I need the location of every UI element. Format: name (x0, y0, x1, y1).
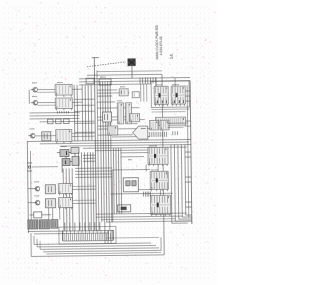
connector CN1 (28, 220, 38, 229)
wire K1 out (72, 88, 82, 90)
transistor Q3 (28, 133, 35, 138)
wire U7 row (110, 192, 172, 195)
wire nest h4b (46, 253, 161, 254)
wire to IC4 a (121, 152, 148, 154)
marks right of IC3 (173, 131, 178, 135)
wire resistor row (40, 120, 95, 123)
hatch cluster IC5-IC6 (143, 191, 150, 196)
wire nest h2 (37, 245, 156, 246)
wire comb risers (65, 222, 110, 231)
wire IC3 right b (168, 126, 184, 128)
wire IC4-IC5 (145, 165, 147, 172)
label K1 (57, 82, 63, 84)
resistor array RA1 (140, 77, 156, 83)
capacitor C2 (45, 185, 55, 194)
wire K5 out a (73, 199, 96, 201)
wire mid bus 3 (60, 144, 191, 146)
label Q4 (34, 181, 39, 183)
ic IC3b (160, 120, 169, 130)
wire right nest bottoms (172, 215, 192, 223)
resistor R6 row (30, 212, 51, 218)
hatch cluster below IC3 (150, 132, 167, 137)
label Q3 (30, 128, 35, 130)
wire box bottom (106, 221, 192, 222)
wire nest v3 (36, 239, 38, 247)
wire IC4 down (157, 164, 159, 171)
wire comb to nest verticals (105, 230, 111, 243)
wire comb right edge (112, 230, 114, 240)
wire Q1-Q2 left (28, 90, 30, 104)
wire below CN row 2 (34, 232, 109, 235)
label U8 (120, 86, 125, 88)
label Q1 (32, 82, 37, 84)
wire below CN row (28, 230, 113, 231)
wire right edge (190, 81, 192, 224)
wire below M1 b (151, 111, 185, 113)
wire nest v2 (33, 236, 35, 244)
relay K2 (55, 98, 72, 111)
wire K5 drop (59, 208, 61, 220)
wire Q1 to K1 (37, 88, 55, 90)
wire K3 out b (72, 135, 95, 137)
relay K1 (55, 84, 72, 97)
connector CN4 outline (59, 226, 116, 244)
wire IC3 right a (168, 122, 188, 124)
wire outer bottom (31, 255, 164, 257)
label U5 (107, 123, 112, 125)
wire below M1 (151, 108, 189, 110)
connector J1 (86, 78, 94, 84)
ic U2 (102, 112, 111, 122)
connector CN4 comb (63, 230, 113, 241)
svg-text:14: 14 (169, 54, 174, 60)
ic IC5 (150, 171, 168, 191)
resistor row R1-R3 (48, 119, 70, 124)
connector CN3 (51, 220, 58, 229)
wire K4 out a (72, 185, 95, 187)
wire F1 down (131, 66, 133, 78)
crystal Y1 arrow symbol (133, 126, 148, 139)
IC1 pin dots (157, 100, 166, 103)
wire K5 out b (73, 202, 96, 204)
wire C3 drop b (52, 208, 54, 220)
title text block (rotated) (155, 25, 163, 60)
wire K2 out (72, 101, 82, 103)
wire nest v4 (160, 237, 162, 250)
transistor Q1 (31, 87, 38, 92)
wire nest v1 (30, 233, 32, 256)
ic U8 (119, 89, 128, 96)
wire left horizontals (29, 112, 79, 119)
wire center mesh (74, 90, 150, 138)
wire osc outputs (75, 168, 112, 177)
relay K5 (59, 197, 73, 209)
wire box top (112, 168, 150, 170)
wire to IC4 b (121, 156, 144, 158)
wire mid bus 4 (83, 147, 187, 148)
Y1 inner mark (141, 128, 146, 130)
label IC1 (155, 84, 162, 86)
ic IC3a (150, 120, 159, 130)
oscillator X1 cluster (57, 147, 79, 172)
ic U4 (125, 103, 131, 124)
wire spine left (94, 58, 96, 231)
wire outer loop right (162, 74, 164, 229)
wire top bus 2 (79, 78, 190, 79)
wire U7 to IC5 (138, 188, 150, 190)
wire IC5-IC6 (159, 189, 161, 195)
wire bottom bus 3 (101, 218, 176, 221)
wire nest h4 (43, 250, 161, 251)
capacitor C3 (46, 199, 56, 208)
ic U6 (129, 114, 139, 122)
wire top bus 3 (79, 81, 190, 82)
wire Q1 to K1 b (37, 91, 55, 93)
wire top tick (92, 57, 99, 59)
ticks below K2 (57, 111, 68, 114)
wire Q3 to K3 (36, 135, 56, 137)
wire to Q4 (28, 188, 34, 190)
label U1 (100, 76, 106, 78)
ic IC4 (148, 147, 168, 166)
ic U5 (108, 126, 118, 135)
wire D1 to osc (32, 166, 58, 168)
wire lower-left vertical bus (63, 152, 94, 231)
ic U7 (123, 178, 138, 192)
wire spine right (97, 70, 99, 231)
wire top bus 4 (79, 83, 151, 86)
diode D1 far left (27, 163, 32, 171)
wire nest h1 (34, 243, 151, 244)
ic IC6 (150, 195, 170, 216)
label Y1 (133, 123, 138, 125)
wire mid bus 2 (40, 142, 189, 144)
capacitor C1 (42, 132, 51, 141)
relay K4 (58, 183, 72, 195)
wire osc crossings (83, 155, 95, 161)
ic U3 (117, 103, 123, 124)
transistor Q4 (33, 186, 40, 191)
wire comb left edge (61, 231, 63, 241)
wire K4 out b (72, 188, 95, 190)
module box M1 (151, 81, 189, 107)
wire nest h3 (40, 248, 159, 249)
wire far left vertical 2 (29, 151, 32, 227)
relay K3 (56, 129, 72, 143)
wire top bus 1 (87, 73, 162, 76)
scan noise speckle (decorative) (2, 2, 216, 283)
connector CN2 (39, 220, 49, 229)
wire nest v3b (39, 241, 41, 249)
label X1 (61, 146, 67, 148)
label IC4 (149, 145, 157, 147)
jumper JP1 (118, 205, 131, 212)
ic IC2 (171, 86, 185, 106)
ic U1 (99, 79, 111, 85)
fuse F1 (128, 59, 136, 66)
wire Q2 to K2 (37, 101, 55, 103)
transistor Q2 (31, 100, 38, 105)
wire center bus verticals upper (74, 81, 122, 222)
wire right edge stubs (184, 91, 191, 207)
wire to Q5 (28, 202, 34, 204)
wire mid bus 5 (95, 149, 160, 152)
wire mid bus 1 (27, 139, 191, 141)
wire right inner (187, 85, 189, 217)
wire nest h5 (106, 236, 159, 239)
wire C3 drop a (48, 208, 50, 220)
IC2 pin dots (174, 100, 183, 103)
label IC5 (151, 169, 158, 171)
wire dashed leader (87, 62, 126, 67)
wire K3 out a (72, 132, 95, 134)
wire right nest verticals (171, 145, 186, 224)
ic IC1 (154, 86, 168, 106)
wire IC1 up (155, 78, 157, 86)
wire top bus 0 (97, 70, 162, 73)
wire bottom bus 2 (96, 216, 183, 217)
transistor Q5 (33, 200, 40, 205)
wire outer loop right lower (163, 229, 165, 254)
label U3 (117, 100, 122, 102)
label Q5 (34, 195, 39, 197)
wire RA1 drops (141, 84, 147, 102)
label IC2 (172, 84, 179, 86)
wire far left vertical 1 (27, 141, 28, 232)
wire box left (111, 170, 114, 222)
wire Q2 to K2 b (37, 104, 55, 106)
resistor network RN1 (156, 117, 186, 125)
svg-text:4-034-679-01: 4-034-679-01 (159, 36, 163, 55)
wire bottom bus 1 (96, 213, 187, 214)
wire IC2 up (174, 78, 176, 86)
label Q2 (32, 95, 37, 97)
capacitor C4 (132, 92, 139, 98)
label near IC4 (128, 159, 132, 161)
